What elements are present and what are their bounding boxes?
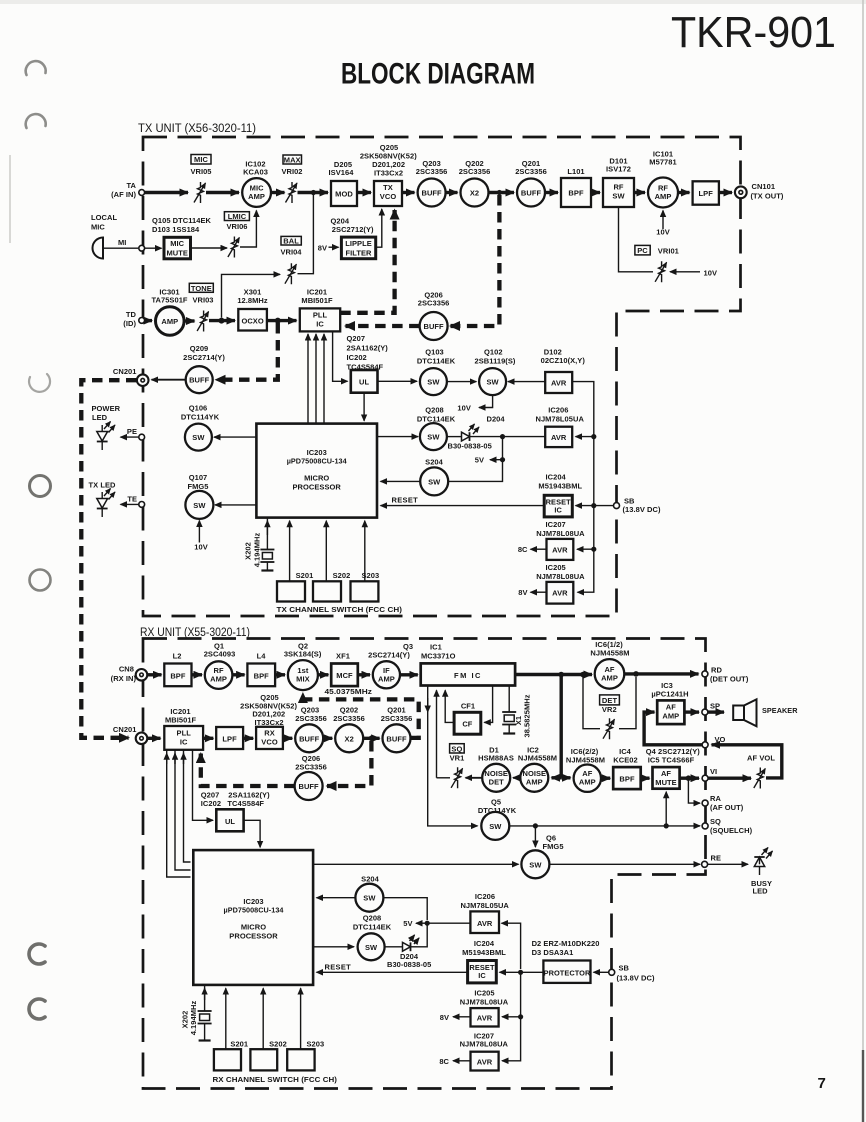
- svg-text:DTC114EK: DTC114EK: [417, 415, 456, 424]
- svg-text:2SC2714(Y): 2SC2714(Y): [368, 651, 410, 660]
- wire PLL to MICRO RX line2: [175, 750, 191, 870]
- wire RESET IC to MICRO RX: [317, 971, 468, 973]
- svg-text:AVR: AVR: [477, 1058, 493, 1067]
- wire AVR IC205 8V output: [531, 591, 547, 593]
- wire SW Q208 to D204: [447, 436, 461, 438]
- svg-text:LOCAL: LOCAL: [91, 213, 117, 222]
- node junction bus RESET RX: [518, 970, 523, 975]
- node junction squelch AF MUTE: [664, 823, 669, 828]
- svg-text:VRI04: VRI04: [280, 248, 302, 257]
- wire heavy dashed BUFF Q206 to PLL: [346, 324, 420, 328]
- potentiometer VR103: [189, 283, 213, 331]
- wire UL to MICRO: [363, 393, 365, 421]
- box RESET IC IC204: [538, 473, 582, 517]
- switch Q106: [181, 404, 220, 451]
- wire PLL to MICRO line2: [315, 334, 317, 424]
- svg-text:IT33Cx2: IT33Cx2: [254, 718, 283, 727]
- microprocessor IC203 TX: [256, 424, 377, 518]
- wire crystal to MICRO RX: [204, 988, 206, 1000]
- svg-text:BUFF: BUFF: [299, 734, 320, 743]
- svg-text:Q209: Q209: [190, 344, 209, 353]
- svg-text:B30-0838-05: B30-0838-05: [448, 442, 492, 451]
- buffer Q203 RX: [295, 706, 327, 753]
- svg-text:5V: 5V: [403, 919, 412, 928]
- svg-text:DTC114YK: DTC114YK: [181, 413, 220, 422]
- svg-text:NJM4558M: NJM4558M: [566, 756, 605, 765]
- connector CN201 RX: [113, 725, 147, 744]
- wire CN201 to PLL IC RX: [147, 737, 160, 740]
- wire bus to AVR IC205 RX: [502, 972, 521, 1017]
- wire BPF to RF AMP Q1: [192, 673, 203, 676]
- amplifier Q1 RF AMP: [204, 642, 236, 689]
- wire 5V junction to AVR IC206 RX: [427, 922, 470, 924]
- node junction 5V: [500, 457, 505, 462]
- svg-text:4.194MHz: 4.194MHz: [189, 1001, 198, 1036]
- wire TX VCO to BUFF Q203: [402, 191, 415, 194]
- svg-text:UL: UL: [359, 378, 369, 387]
- wire S203 to MICRO RX: [300, 988, 302, 1049]
- svg-text:NJM78L08UA: NJM78L08UA: [460, 997, 509, 1006]
- svg-text:MUTE: MUTE: [166, 248, 187, 257]
- box RESET IC IC204 RX: [462, 939, 506, 983]
- svg-text:VRI02: VRI02: [281, 167, 302, 176]
- wire SB to PROTECTOR RX: [594, 971, 610, 973]
- wire DET VR2 loop: [583, 675, 600, 729]
- svg-text:8V: 8V: [440, 1013, 449, 1022]
- svg-text:PE: PE: [127, 427, 137, 436]
- svg-text:AMP: AMP: [579, 778, 596, 787]
- wire UL to MICRO RX: [244, 820, 261, 847]
- wire AF MUTE to RA: [688, 778, 700, 803]
- wire RF AMP to LPF: [678, 191, 690, 194]
- svg-text:RX CHANNEL SWITCH (FCC CH): RX CHANNEL SWITCH (FCC CH): [213, 1075, 338, 1084]
- box UL IC202 RX: [201, 791, 270, 832]
- svg-text:AMP: AMP: [526, 777, 543, 786]
- wire MIC AMP to VR102: [271, 191, 285, 194]
- svg-text:(ID): (ID): [123, 319, 136, 328]
- svg-text:IC205: IC205: [546, 563, 566, 572]
- svg-text:SW: SW: [428, 477, 441, 486]
- svg-text:2SC3356: 2SC3356: [295, 714, 327, 723]
- TX unit dashed border: [143, 137, 741, 616]
- microphone LOCAL MIC: [91, 213, 117, 259]
- filter MCF XF1: [325, 652, 373, 697]
- wire PE to LED: [121, 436, 139, 438]
- wire SW Q6 to RE: [549, 863, 700, 865]
- svg-text:TA: TA: [126, 181, 136, 190]
- svg-text:2SC2714(Y): 2SC2714(Y): [183, 353, 225, 362]
- svg-text:VO: VO: [715, 735, 726, 744]
- box AVR IC206: [536, 406, 585, 448]
- node RE: [702, 861, 708, 867]
- svg-text:IC: IC: [554, 506, 562, 515]
- svg-text:2SC3356: 2SC3356: [381, 714, 413, 723]
- svg-text:D2 ERZ-M10DK220: D2 ERZ-M10DK220: [532, 939, 600, 948]
- buffer Q201 RX: [381, 706, 413, 753]
- svg-text:2SC4093: 2SC4093: [204, 650, 236, 659]
- svg-text:ISV172: ISV172: [606, 165, 631, 174]
- wire bus to AVR IC207 RX: [502, 1017, 521, 1061]
- svg-text:(13.8V DC): (13.8V DC): [623, 505, 661, 514]
- svg-text:Q103: Q103: [425, 348, 444, 357]
- svg-text:D204: D204: [487, 415, 506, 424]
- svg-text:IC205: IC205: [474, 989, 494, 998]
- svg-text:VI: VI: [710, 767, 717, 776]
- node SB TX: [614, 503, 620, 509]
- svg-text:PC: PC: [637, 246, 648, 255]
- svg-text:Q102: Q102: [484, 348, 503, 357]
- wire MICRO to SW Q6: [313, 863, 518, 865]
- wire 5V to S204: [449, 460, 503, 482]
- node junction FM IC out 2: [580, 672, 586, 678]
- wire MICRO to SW Q208 RX: [313, 946, 354, 948]
- box PLL IC IC201 RX: [164, 707, 203, 750]
- svg-text:AF VOL: AF VOL: [747, 754, 775, 763]
- svg-text:Q107: Q107: [189, 473, 208, 482]
- wire MICRO to SW Q106: [214, 436, 256, 438]
- wire PLL to MICRO RX line3: [184, 750, 191, 862]
- wire AF MUTE to VI: [680, 777, 699, 780]
- svg-text:SW: SW: [365, 943, 378, 952]
- switch Q208 RX: [353, 914, 392, 961]
- svg-text:RD: RD: [711, 666, 722, 675]
- svg-text:SPEAKER: SPEAKER: [762, 706, 798, 715]
- svg-text:POWER: POWER: [92, 404, 121, 413]
- svg-text:(AF OUT): (AF OUT): [710, 803, 744, 812]
- node junction after OCXO: [275, 318, 281, 324]
- switch Q5: [478, 798, 517, 840]
- punch hole 4: [30, 476, 51, 497]
- wire FM IC to CF loop out: [484, 686, 492, 723]
- wire 8V to LIPPLE FILTER: [329, 246, 339, 248]
- svg-text:4.194MHz: 4.194MHz: [253, 533, 262, 568]
- switch S202 RX: [250, 1040, 286, 1071]
- wire X2 to BUFF Q201 RX: [363, 737, 379, 740]
- svg-text:IC: IC: [316, 320, 324, 329]
- svg-text:S201: S201: [230, 1040, 248, 1049]
- switch S203: [351, 571, 380, 602]
- svg-text:NJM78L08UA: NJM78L08UA: [536, 529, 585, 538]
- node junction 5V line: [500, 434, 505, 439]
- node junction after AF AMP: [633, 671, 639, 677]
- wire MICRO to SW Q208: [377, 436, 418, 438]
- svg-text:DTC114YK: DTC114YK: [478, 806, 517, 815]
- svg-text:TC4S584F: TC4S584F: [347, 363, 384, 372]
- box AVR IC206 RX: [460, 892, 509, 933]
- wire X2 to BUFF Q201: [489, 191, 515, 194]
- svg-text:S204: S204: [425, 458, 443, 467]
- svg-text:SW: SW: [489, 822, 502, 831]
- svg-text:L101: L101: [567, 167, 584, 176]
- multiplier Q202 X2 RX: [333, 706, 365, 753]
- wire S202 to MICRO RX: [262, 988, 264, 1049]
- svg-text:VR1: VR1: [450, 754, 465, 763]
- potentiometer VR105: [190, 155, 211, 204]
- svg-text:MICRO: MICRO: [304, 474, 329, 483]
- LED POWER: [92, 404, 121, 450]
- crystal X1: [502, 686, 531, 738]
- svg-text:Q208: Q208: [363, 914, 382, 923]
- svg-text:Q207: Q207: [347, 334, 366, 343]
- svg-text:DTC114EK: DTC114EK: [417, 357, 456, 366]
- svg-text:MI: MI: [118, 238, 126, 247]
- wire BUFF to BPF: [545, 191, 558, 194]
- svg-text:TX CHANNEL SWITCH (FCC CH): TX CHANNEL SWITCH (FCC CH): [277, 605, 403, 614]
- crystal X202 RX: [181, 985, 212, 1041]
- svg-text:LED: LED: [753, 887, 769, 896]
- svg-text:CN101: CN101: [752, 182, 776, 191]
- svg-text:BAL: BAL: [283, 237, 299, 246]
- potentiometer VR106: [224, 212, 249, 258]
- node junction after X2: [497, 190, 502, 195]
- box UL IC202: [347, 334, 389, 393]
- svg-text:AVR: AVR: [477, 1014, 493, 1023]
- buffer Q209: [183, 344, 225, 393]
- box AVR IC205 RX: [460, 989, 509, 1027]
- svg-text:AMP: AMP: [248, 192, 265, 201]
- potentiometer VR104: [280, 236, 302, 284]
- wire heavy dashed main line to BUFF Q206: [451, 195, 500, 326]
- multiplier Q202 X2: [459, 159, 491, 207]
- svg-text:NJM78L08UA: NJM78L08UA: [536, 572, 585, 581]
- wire OCXO to PLL IC: [267, 319, 297, 322]
- wire RF SW to RF AMP: [634, 191, 645, 194]
- wire TE to LED: [121, 503, 139, 505]
- wire AF AMP IC3 to SP: [684, 710, 699, 713]
- box MIC MUTE Q105: [152, 216, 212, 259]
- svg-text:NJM78L05UA: NJM78L05UA: [536, 415, 585, 424]
- svg-text:OCXO: OCXO: [241, 317, 263, 326]
- node junction 5V RX: [425, 921, 430, 926]
- wire 10V to VR101: [670, 271, 700, 273]
- svg-text:AVR: AVR: [551, 433, 567, 442]
- wire CN8 to BPF L2: [148, 673, 162, 676]
- wire SW Q102 to 10V: [479, 395, 493, 407]
- svg-text:AMP: AMP: [161, 317, 178, 326]
- svg-text:LED: LED: [92, 413, 108, 422]
- box RF SW D101: [603, 157, 634, 208]
- wire VR106 to MIC AMP: [240, 211, 256, 248]
- svg-text:M57781: M57781: [649, 158, 676, 167]
- wire BPF to AF MUTE: [641, 777, 650, 780]
- wire junction to BAL VR104: [222, 274, 281, 317]
- node MI: [139, 245, 145, 251]
- svg-text:8C: 8C: [518, 545, 528, 554]
- wire LPF to CN101: [719, 191, 732, 194]
- wire TA to VR105: [145, 191, 188, 194]
- wire PLL to MICRO line1: [307, 334, 309, 424]
- box BPF L101: [561, 167, 591, 207]
- svg-text:8V: 8V: [518, 588, 527, 597]
- svg-text:PLL: PLL: [313, 311, 328, 320]
- box OCXO X301: [237, 288, 268, 331]
- svg-text:IC: IC: [180, 738, 188, 747]
- svg-text:NJM78L08UA: NJM78L08UA: [460, 1040, 509, 1049]
- svg-text:(RX IN): (RX IN): [111, 674, 137, 683]
- svg-text:RESET: RESET: [392, 496, 419, 505]
- svg-text:RX: RX: [264, 729, 275, 738]
- svg-text:SW: SW: [193, 501, 206, 510]
- wire branch to NOISE AMP: [552, 776, 562, 779]
- svg-text:CN8: CN8: [119, 665, 134, 674]
- node junction after AF MUTE: [686, 775, 692, 781]
- connector CN8: [111, 665, 148, 684]
- LED BUSY: [751, 848, 773, 896]
- op-amp IC6(1/2) AF AMP: [590, 640, 629, 689]
- svg-text:AMP: AMP: [210, 675, 227, 684]
- wire VR105 to MIC AMP: [206, 191, 239, 194]
- svg-text:µPD75008CU-134: µPD75008CU-134: [224, 906, 285, 915]
- node junction after VR102: [311, 190, 316, 195]
- svg-text:AVR: AVR: [477, 919, 493, 928]
- svg-text:KCE02: KCE02: [613, 756, 637, 765]
- svg-text:AF: AF: [661, 769, 671, 778]
- potentiometer AF VOL: [747, 754, 775, 789]
- svg-text:PROCESSOR: PROCESSOR: [229, 932, 278, 941]
- scan right edge: [862, 0, 864, 1050]
- wire SB to RESET IC: [576, 505, 615, 507]
- wire Q5 to SQ squelch line: [509, 825, 700, 827]
- switch S204 RX: [355, 875, 383, 912]
- svg-text:IC: IC: [478, 971, 486, 980]
- node junction bus IC207: [591, 547, 596, 552]
- node TA: [139, 190, 145, 196]
- svg-text:IC206: IC206: [475, 892, 495, 901]
- svg-text:2SC3356: 2SC3356: [295, 762, 327, 771]
- wire VI to AF VOL: [708, 777, 751, 780]
- svg-text:7: 7: [818, 1075, 826, 1092]
- svg-text:RX UNIT (X55-3020-11): RX UNIT (X55-3020-11): [140, 627, 250, 639]
- svg-text:SW: SW: [363, 894, 376, 903]
- svg-text:X202: X202: [244, 542, 253, 560]
- svg-text:S202: S202: [269, 1040, 287, 1049]
- speaker: [733, 699, 798, 726]
- LED D204 RX: [385, 935, 432, 969]
- wire RESET IC to MICRO: [381, 505, 545, 507]
- box BPF L4: [247, 652, 275, 687]
- svg-text:L2: L2: [173, 652, 182, 661]
- svg-text:BLOCK DIAGRAM: BLOCK DIAGRAM: [341, 58, 535, 91]
- RX unit dashed border: [143, 639, 706, 1089]
- svg-text:AMP: AMP: [601, 673, 618, 682]
- wire MIC MUTE to VR106: [191, 247, 228, 249]
- svg-text:KCA03: KCA03: [243, 168, 268, 177]
- svg-text:TE: TE: [127, 495, 137, 504]
- svg-text:8V: 8V: [318, 244, 327, 253]
- svg-text:D3 DSA3A1: D3 DSA3A1: [532, 948, 574, 957]
- svg-text:BPF: BPF: [170, 671, 186, 680]
- switch Q103: [417, 348, 456, 396]
- switch S204: [420, 458, 448, 496]
- LED D204: [448, 415, 506, 451]
- box BPF IC4: [613, 747, 641, 789]
- svg-text:VRI03: VRI03: [192, 296, 213, 305]
- wire RF AMP 10V supply: [662, 211, 664, 230]
- wire AVR IC205 8V output RX: [453, 1016, 471, 1018]
- wire PLL to MICRO RX line1: [167, 750, 191, 877]
- svg-text:S203: S203: [362, 571, 380, 580]
- svg-text:VCO: VCO: [380, 192, 397, 201]
- box PROTECTOR D2 D3: [532, 939, 600, 983]
- wire BPF L4 to 1st MIX: [275, 673, 285, 676]
- svg-text:2SB1119(S): 2SB1119(S): [475, 357, 516, 366]
- svg-text:LIPPLE: LIPPLE: [345, 239, 372, 248]
- wire PLL to UL RX: [193, 750, 214, 820]
- svg-text:SW: SW: [427, 433, 440, 442]
- svg-text:(DET OUT): (DET OUT): [710, 675, 749, 684]
- wire SW Q103 to SW Q102: [447, 381, 476, 383]
- wire SP to speaker: [708, 710, 724, 713]
- wire NOISE AMP to NOISE DET: [513, 777, 520, 779]
- box PLL IC IC201: [300, 288, 340, 332]
- switch S201: [277, 571, 313, 602]
- svg-text:45.0375MHz: 45.0375MHz: [325, 687, 373, 696]
- wire FM IC to AF AMP: [515, 673, 592, 676]
- svg-text:IC204: IC204: [546, 473, 567, 482]
- svg-text:MOD: MOD: [335, 190, 353, 199]
- filter CF1: [454, 702, 481, 735]
- box BPF L2: [164, 652, 191, 687]
- svg-text:TX LED: TX LED: [89, 481, 117, 490]
- wire AVR D102 to supply bus: [572, 382, 594, 593]
- wire CF loop return to FM IC: [445, 690, 454, 722]
- svg-text:VRI01: VRI01: [658, 247, 679, 256]
- potentiometer VR101: [635, 245, 679, 282]
- svg-text:TD: TD: [126, 310, 137, 319]
- svg-text:5V: 5V: [475, 456, 484, 465]
- node junction bus IC205 RX: [518, 1014, 523, 1019]
- node SB RX: [609, 969, 615, 975]
- svg-text:PLL: PLL: [177, 729, 192, 738]
- svg-text:38.5825MHz: 38.5825MHz: [523, 694, 532, 737]
- wire RF SW to VR101: [619, 207, 654, 272]
- box AVR IC207: [536, 520, 585, 560]
- wire 5V tap RX: [416, 922, 427, 924]
- svg-text:SQ: SQ: [710, 817, 721, 826]
- wire squelch to AF MUTE control: [665, 792, 667, 826]
- svg-text:BUFF: BUFF: [421, 189, 442, 198]
- svg-text:CF: CF: [462, 720, 472, 729]
- svg-text:RE: RE: [711, 854, 722, 863]
- svg-text:XF1: XF1: [336, 652, 350, 661]
- svg-text:SP: SP: [710, 702, 720, 711]
- op-amp IC102 MIC AMP: [242, 160, 271, 207]
- svg-text:Q208: Q208: [425, 406, 444, 415]
- wire AF AMP to BPF IC4: [601, 777, 610, 780]
- switch S201 RX: [214, 1040, 248, 1071]
- svg-text:AVR: AVR: [552, 589, 568, 598]
- wire heavy dashed PLL to TX VCO: [340, 210, 394, 313]
- svg-text:RESET: RESET: [325, 962, 352, 971]
- amplifier IC301 AMP: [151, 288, 187, 336]
- svg-text:VR2: VR2: [602, 705, 617, 714]
- wire heavy dashed to BUFF Q206 RX: [327, 741, 371, 786]
- node RA: [702, 800, 708, 806]
- svg-text:MIX: MIX: [296, 675, 309, 684]
- svg-text:BPF: BPF: [568, 189, 584, 198]
- amplifier Q3 IF AMP: [368, 642, 413, 688]
- svg-text:SQ: SQ: [451, 744, 462, 753]
- svg-text:SW: SW: [529, 860, 542, 869]
- svg-text:3SK184(S): 3SK184(S): [284, 650, 322, 659]
- wire RF AMP to BPF L4: [232, 673, 244, 676]
- wire S203 to MICRO: [364, 521, 366, 582]
- svg-text:L4: L4: [257, 652, 267, 661]
- svg-text:AMP: AMP: [662, 712, 679, 721]
- svg-text:NJM4558M: NJM4558M: [518, 754, 557, 763]
- wire VR103 to OCXO: [209, 319, 235, 322]
- svg-text:M51943BML: M51943BML: [538, 482, 582, 491]
